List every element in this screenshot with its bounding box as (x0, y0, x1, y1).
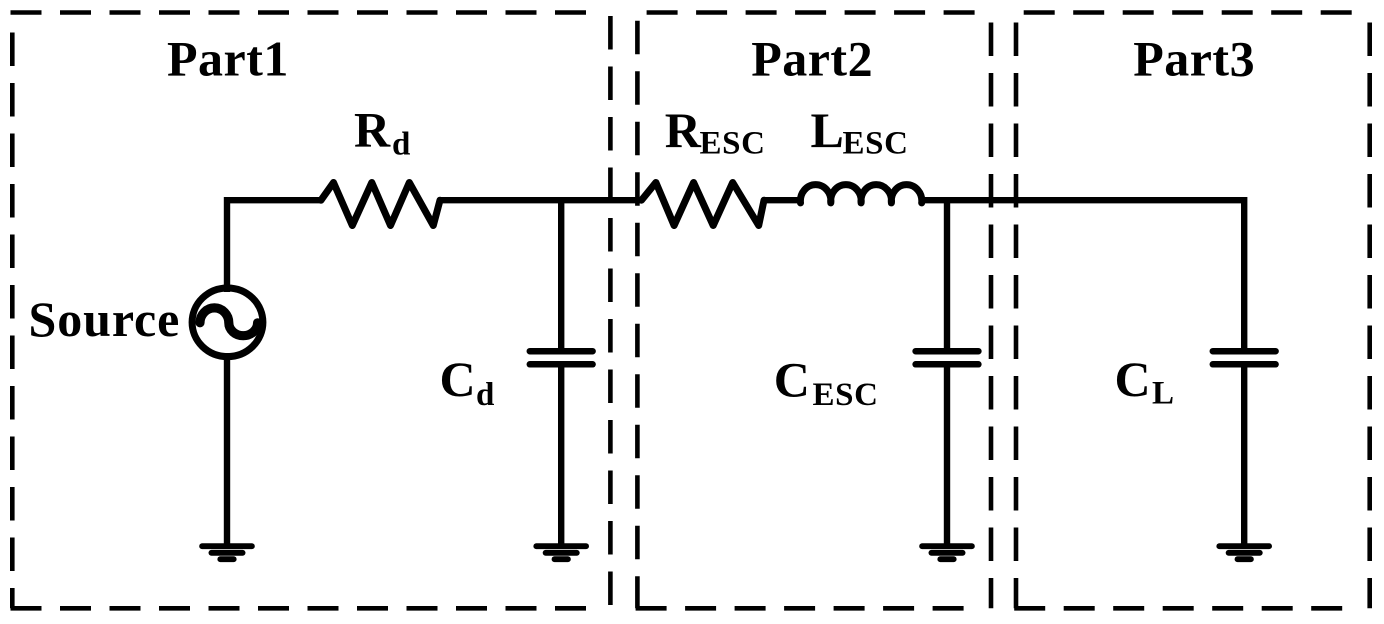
label CESC (774, 352, 879, 413)
resistor Rd (321, 183, 440, 226)
wire: Rd to RESC (440, 197, 642, 203)
wire: LESC to CL corner (922, 197, 1244, 203)
svg-text:C: C (774, 352, 811, 408)
wire: source top to resistor Rd (227, 200, 321, 292)
svg-text:Part1: Part1 (167, 31, 289, 87)
capacitor Cd (530, 351, 593, 364)
ground under CL (1219, 546, 1269, 559)
wire: Cd to ground (558, 364, 564, 543)
svg-text:ESC: ESC (843, 126, 909, 162)
svg-text:Part2: Part2 (751, 31, 873, 87)
label CL (1115, 351, 1175, 412)
svg-text:C: C (440, 351, 477, 407)
svg-text:L: L (1152, 376, 1175, 412)
svg-text:Source: Source (29, 291, 181, 347)
wire: source bottom to ground (224, 353, 230, 544)
label LESC (811, 102, 909, 162)
wire: node B tap down to CESC (944, 200, 950, 351)
capacitor CESC (916, 351, 979, 364)
wire: CESC to ground (944, 364, 950, 543)
box Part2 dashed border (636, 13, 991, 609)
wire: CL vertical drop (1241, 197, 1247, 351)
svg-text:ESC: ESC (700, 126, 766, 162)
wire: RESC to LESC (764, 197, 801, 203)
svg-text:d: d (476, 377, 495, 413)
svg-text:Part3: Part3 (1133, 31, 1255, 87)
svg-text:L: L (811, 102, 845, 158)
svg-text:R: R (665, 102, 702, 158)
label RESC (665, 102, 766, 162)
ground under source (202, 546, 252, 559)
svg-text:d: d (392, 127, 411, 163)
label Cd (440, 351, 495, 413)
wire: node A tap down to Cd (558, 200, 564, 351)
resistor RESC (642, 183, 765, 226)
svg-text:R: R (354, 102, 391, 158)
svg-text:ESC: ESC (813, 377, 879, 413)
svg-text:C: C (1115, 351, 1152, 407)
box Part3 dashed border (1014, 13, 1369, 609)
box Part1 dashed border (11, 13, 611, 609)
ground under Cd (536, 546, 586, 559)
ground under CESC (922, 546, 972, 559)
capacitor CL (1213, 351, 1276, 364)
wire: CL to ground (1241, 364, 1247, 543)
inductor LESC (800, 185, 921, 203)
label Rd (354, 102, 411, 163)
source AC symbol (192, 288, 263, 357)
